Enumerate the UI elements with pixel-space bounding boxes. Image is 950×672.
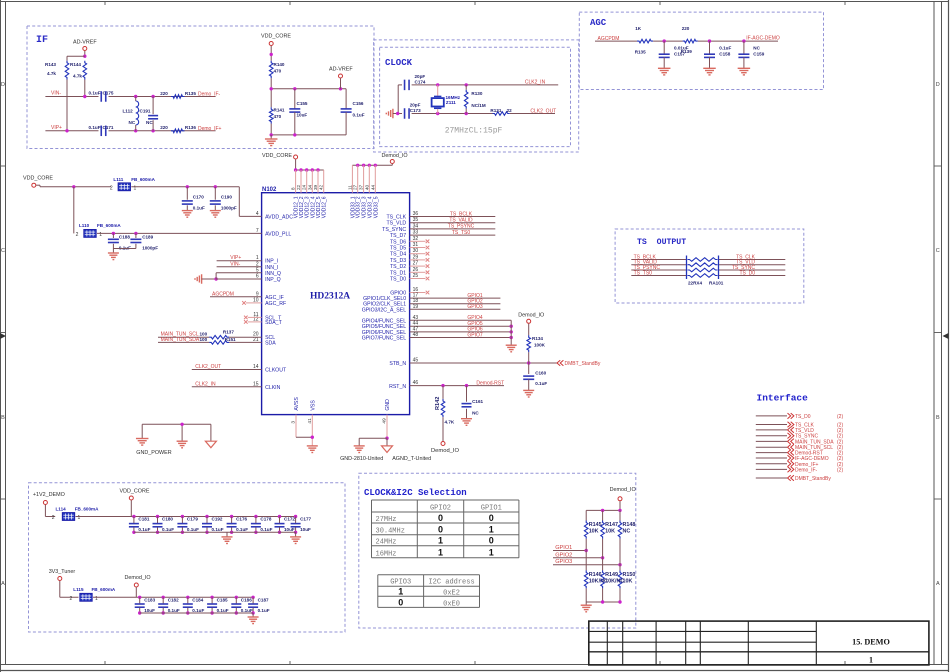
svg-text:2: 2: [70, 596, 73, 602]
svg-text:GPIO2: GPIO2: [430, 505, 451, 513]
svg-text:TS_VLD: TS_VLD: [386, 221, 406, 227]
svg-text:CLKOUT: CLKOUT: [265, 368, 287, 374]
svg-text:R141: R141: [274, 108, 285, 113]
svg-text:34: 34: [307, 184, 312, 190]
svg-text:Demod_IO: Demod_IO: [518, 312, 544, 318]
svg-text:TS_D6: TS_D6: [390, 239, 406, 245]
svg-text:24MHz: 24MHz: [376, 539, 397, 547]
svg-text:GPIO3: GPIO3: [467, 304, 483, 310]
svg-text:0xE0: 0xE0: [443, 601, 460, 609]
svg-text:AGC: AGC: [590, 18, 607, 28]
svg-text:100: 100: [200, 332, 208, 337]
svg-text:44: 44: [370, 184, 375, 190]
svg-text:0.1uF: 0.1uF: [168, 608, 180, 613]
svg-text:R135: R135: [185, 91, 196, 96]
svg-text:Interface: Interface: [757, 393, 809, 404]
svg-text:NC: NC: [623, 529, 631, 535]
svg-text:R140: R140: [274, 62, 285, 67]
svg-text:39: 39: [313, 184, 318, 190]
svg-text:37: 37: [359, 184, 364, 190]
svg-text:R147: R147: [605, 522, 618, 528]
svg-text:D: D: [936, 82, 940, 88]
svg-text:Z111: Z111: [446, 100, 456, 105]
svg-text:A: A: [1, 581, 5, 587]
svg-text:2: 2: [76, 232, 79, 238]
svg-text:R134: R134: [532, 336, 543, 341]
svg-text:1: 1: [398, 587, 403, 597]
svg-text:DMBT_StandBy: DMBT_StandBy: [565, 361, 601, 367]
svg-text:GPIO7: GPIO7: [467, 332, 483, 338]
svg-text:TS_D2: TS_D2: [390, 264, 406, 270]
svg-text:0: 0: [438, 513, 443, 523]
svg-text:TS_D7: TS_D7: [390, 233, 406, 239]
svg-text:VSS: VSS: [310, 400, 316, 411]
svg-text:CLOCK&I2C Selection: CLOCK&I2C Selection: [364, 488, 467, 498]
svg-text:GPIO7/FUNC_SEL: GPIO7/FUNC_SEL: [362, 336, 407, 342]
svg-text:TS_SYNC: TS_SYNC: [382, 227, 406, 233]
svg-text:40: 40: [364, 184, 369, 190]
svg-text:N102: N102: [262, 187, 277, 193]
svg-text:0.1uF: 0.1uF: [241, 608, 253, 613]
svg-text:IF: IF: [36, 35, 48, 46]
svg-text:470: 470: [274, 69, 282, 74]
svg-text:FB_600mA: FB_600mA: [92, 587, 116, 592]
svg-text:C176: C176: [236, 517, 247, 522]
svg-text:AGND_T-United: AGND_T-United: [392, 456, 431, 462]
svg-text:R136: R136: [185, 125, 196, 130]
svg-text:0xE2: 0xE2: [443, 590, 460, 598]
svg-text:0.1uF: 0.1uF: [162, 527, 174, 532]
svg-text:0.1uF: 0.1uF: [89, 125, 101, 130]
svg-text:0.1uF: 0.1uF: [187, 527, 199, 532]
svg-text:R135: R135: [635, 50, 646, 55]
svg-text:C171: C171: [103, 125, 114, 130]
svg-text:TS_D4: TS_D4: [390, 252, 406, 258]
svg-text:L110: L110: [79, 223, 90, 228]
svg-text:TS_VALID: TS_VALID: [449, 218, 473, 224]
svg-text:SDA: SDA: [265, 340, 276, 346]
svg-text:0.1uF: 0.1uF: [236, 527, 248, 532]
svg-text:GND_POWER: GND_POWER: [136, 450, 171, 456]
svg-text:TS_CLK: TS_CLK: [386, 215, 406, 221]
svg-text:2: 2: [52, 515, 55, 521]
svg-text:C174: C174: [415, 80, 426, 85]
svg-text:D: D: [1, 82, 5, 88]
svg-text:470: 470: [274, 114, 282, 119]
svg-text:AD-VREF: AD-VREF: [329, 67, 353, 73]
svg-text:VDD_CORE: VDD_CORE: [120, 488, 150, 494]
svg-text:DMBT_StandBy: DMBT_StandBy: [795, 476, 831, 482]
svg-text:1: 1: [438, 536, 443, 546]
svg-text:Demod_IO: Demod_IO: [125, 575, 151, 581]
svg-text:C186: C186: [241, 597, 252, 602]
svg-text:VDD33_5: VDD33_5: [373, 196, 379, 218]
svg-text:CLK2_OUT: CLK2_OUT: [530, 109, 556, 115]
svg-text:C170: C170: [193, 194, 204, 199]
svg-text:1000pF: 1000pF: [221, 205, 237, 210]
svg-text:STB_N: STB_N: [389, 361, 406, 367]
svg-text:C173: C173: [410, 108, 421, 113]
svg-text:R131: R131: [490, 108, 501, 113]
svg-text:220: 220: [682, 26, 690, 31]
svg-text:C160: C160: [535, 370, 546, 375]
svg-text:24: 24: [302, 184, 307, 190]
svg-text:I2C address: I2C address: [428, 579, 474, 587]
svg-text:0: 0: [438, 525, 443, 535]
svg-text:GND: GND: [385, 399, 391, 411]
svg-text:C184: C184: [192, 597, 203, 602]
svg-text:C189: C189: [142, 234, 153, 239]
svg-text:Demo_IF-: Demo_IF-: [198, 92, 221, 98]
svg-text:10K: 10K: [623, 579, 633, 585]
svg-text:(2): (2): [837, 414, 843, 420]
svg-text:C188: C188: [119, 234, 130, 239]
svg-text:TS_D1: TS_D1: [390, 270, 406, 276]
svg-text:1: 1: [869, 656, 873, 665]
svg-text:C: C: [1, 248, 5, 254]
svg-text:10uF: 10uF: [300, 527, 311, 532]
svg-text:20pF: 20pF: [415, 74, 426, 79]
svg-text:0.1uF: 0.1uF: [192, 608, 204, 613]
svg-text:R146: R146: [589, 572, 602, 578]
svg-text:R145: R145: [589, 522, 602, 528]
svg-text:Demo_IF-: Demo_IF-: [795, 467, 818, 473]
svg-text:R143: R143: [45, 62, 56, 67]
svg-text:0.1uF: 0.1uF: [719, 46, 731, 51]
svg-text:C185: C185: [217, 597, 228, 602]
svg-text:C178: C178: [260, 517, 271, 522]
svg-text:VDD_CORE: VDD_CORE: [262, 153, 292, 159]
svg-text:TS_TS0: TS_TS0: [634, 270, 653, 276]
svg-text:R149: R149: [605, 572, 618, 578]
svg-text:1000pF: 1000pF: [142, 246, 158, 251]
svg-text:10K: 10K: [605, 529, 615, 535]
svg-text:GPIO3: GPIO3: [390, 579, 411, 587]
svg-text:R151: R151: [225, 337, 236, 342]
svg-text:FB_600mA: FB_600mA: [97, 223, 121, 228]
svg-text:15. DEMO: 15. DEMO: [852, 638, 890, 647]
svg-text:B: B: [936, 415, 940, 421]
svg-text:42: 42: [319, 184, 324, 190]
svg-text:27: 27: [353, 184, 358, 190]
svg-text:FB_600mA: FB_600mA: [75, 506, 99, 511]
svg-text:Demo_IF+: Demo_IF+: [198, 126, 222, 132]
svg-text:10K: 10K: [589, 529, 599, 535]
svg-text:AVSS: AVSS: [294, 397, 300, 411]
svg-text:GPIO1: GPIO1: [481, 505, 502, 513]
svg-text:C156: C156: [353, 101, 364, 106]
svg-text:C175: C175: [103, 91, 114, 96]
svg-text:C158: C158: [719, 51, 730, 56]
svg-text:GND-2810-United: GND-2810-United: [340, 456, 383, 462]
svg-text:16MHz: 16MHz: [376, 551, 397, 559]
svg-text:C181: C181: [138, 517, 149, 522]
svg-text:AGC_RF: AGC_RF: [265, 301, 286, 307]
svg-text:NC: NC: [472, 411, 479, 416]
svg-text:2: 2: [110, 186, 113, 192]
svg-text:AD-VREF: AD-VREF: [73, 40, 97, 46]
svg-text:SDA_T: SDA_T: [265, 320, 283, 326]
svg-text:RST_N: RST_N: [389, 384, 406, 390]
svg-text:TS_D5: TS_D5: [390, 246, 406, 252]
svg-text:C179: C179: [187, 517, 198, 522]
svg-text:3V3_Tuner: 3V3_Tuner: [49, 569, 76, 575]
svg-text:C157: C157: [674, 51, 685, 56]
svg-text:VDD12_6: VDD12_6: [322, 196, 328, 218]
svg-text:HD2312A: HD2312A: [310, 292, 350, 302]
svg-text:Demod-RST: Demod-RST: [476, 380, 504, 386]
svg-text:TS OUTPUT: TS OUTPUT: [637, 238, 686, 247]
svg-text:L111: L111: [113, 177, 123, 182]
svg-text:C187: C187: [258, 597, 269, 602]
svg-text:27MHzCL:15pF: 27MHzCL:15pF: [445, 127, 503, 136]
svg-text:CLK2_IN: CLK2_IN: [525, 80, 546, 86]
svg-text:AVDD_PLL: AVDD_PLL: [265, 231, 291, 237]
svg-text:4.7k: 4.7k: [73, 74, 82, 79]
svg-text:0: 0: [489, 513, 494, 523]
svg-text:B: B: [1, 415, 5, 421]
svg-text:0.1uF: 0.1uF: [212, 527, 224, 532]
svg-text:+1V2_DEMO: +1V2_DEMO: [33, 492, 65, 498]
svg-text:TS_BCLK: TS_BCLK: [450, 211, 473, 217]
svg-text:AVDD_ADC: AVDD_ADC: [265, 214, 293, 220]
svg-text:C192: C192: [212, 517, 223, 522]
svg-text:0.1uF: 0.1uF: [353, 113, 365, 118]
svg-text:INN_Q: INN_Q: [265, 271, 281, 277]
svg-text:C191: C191: [140, 109, 151, 114]
svg-text:220: 220: [160, 125, 168, 130]
svg-text:NC/1M: NC/1M: [471, 103, 485, 108]
svg-text:C155: C155: [297, 101, 308, 106]
svg-text:L115: L115: [73, 587, 84, 592]
svg-text:22: 22: [296, 184, 301, 190]
svg-text:GPIO3/I2C_A_SEL: GPIO3/I2C_A_SEL: [362, 307, 407, 313]
svg-text:FB_600mA: FB_600mA: [131, 177, 155, 182]
svg-text:INP_I: INP_I: [265, 259, 278, 265]
svg-text:CLKIN: CLKIN: [265, 385, 281, 391]
svg-text:RA101: RA101: [709, 281, 724, 286]
svg-text:R148: R148: [623, 522, 636, 528]
svg-text:IF-AGC-DEMO: IF-AGC-DEMO: [746, 35, 780, 41]
svg-text:10uF: 10uF: [297, 113, 308, 118]
svg-text:1K: 1K: [635, 26, 642, 31]
svg-text:R137: R137: [223, 330, 234, 335]
svg-text:CLOCK: CLOCK: [385, 58, 413, 68]
svg-text:R144: R144: [70, 62, 81, 67]
svg-text:8: 8: [291, 187, 296, 190]
svg-text:VDD_CORE: VDD_CORE: [261, 34, 291, 40]
svg-text:100K: 100K: [534, 343, 546, 348]
svg-text:4.7K: 4.7K: [445, 420, 455, 425]
svg-text:TS_PSYNC: TS_PSYNC: [448, 224, 475, 230]
svg-text:R150: R150: [623, 572, 636, 578]
svg-text:NC: NC: [129, 120, 136, 125]
svg-text:C190: C190: [221, 194, 232, 199]
svg-text:C180: C180: [162, 517, 173, 522]
svg-text:INP_Q: INP_Q: [265, 277, 281, 283]
svg-text:TS_D0: TS_D0: [739, 270, 755, 276]
svg-text:0.1uF: 0.1uF: [260, 527, 272, 532]
svg-text:Demod_IO: Demod_IO: [610, 487, 636, 493]
svg-text:C172: C172: [284, 517, 295, 522]
svg-text:L114: L114: [56, 506, 67, 511]
svg-text:220: 220: [160, 91, 168, 96]
svg-text:TS_TS0: TS_TS0: [452, 230, 471, 236]
svg-text:0.1uF: 0.1uF: [193, 205, 205, 210]
svg-text:22RX4: 22RX4: [688, 281, 702, 286]
svg-text:Demod_IO: Demod_IO: [431, 448, 460, 454]
svg-text:TS_D3: TS_D3: [390, 258, 406, 264]
svg-text:TS_D0: TS_D0: [795, 414, 811, 420]
svg-text:C182: C182: [168, 597, 179, 602]
svg-text:0.1uF: 0.1uF: [89, 91, 101, 96]
svg-text:C183: C183: [144, 597, 155, 602]
svg-text:R130: R130: [471, 91, 482, 96]
svg-text:0.1uF: 0.1uF: [138, 527, 150, 532]
svg-text:0.1uF: 0.1uF: [217, 608, 229, 613]
svg-text:(2): (2): [837, 467, 843, 473]
svg-text:1: 1: [489, 525, 494, 535]
svg-text:VDD_CORE: VDD_CORE: [23, 176, 53, 182]
svg-text:100: 100: [200, 337, 208, 342]
svg-text:10uF: 10uF: [284, 527, 295, 532]
svg-text:A: A: [936, 581, 940, 587]
svg-text:0: 0: [398, 598, 403, 608]
svg-text:Demod_IO: Demod_IO: [382, 153, 408, 159]
svg-text:0.1uF: 0.1uF: [535, 381, 547, 386]
svg-text:VIN-: VIN-: [51, 91, 61, 97]
svg-text:C177: C177: [300, 517, 311, 522]
svg-text:VIP+: VIP+: [51, 125, 62, 131]
svg-text:0.1uF: 0.1uF: [258, 608, 270, 613]
svg-text:C: C: [936, 248, 940, 254]
svg-text:1: 1: [438, 548, 443, 558]
svg-text:0.01uF: 0.01uF: [674, 46, 689, 51]
svg-text:C161: C161: [472, 399, 483, 404]
svg-text:R142: R142: [435, 397, 441, 410]
svg-text:1: 1: [489, 548, 494, 558]
svg-text:NC: NC: [146, 120, 153, 125]
svg-text:AGC_IF: AGC_IF: [265, 295, 284, 301]
svg-text:27MHz: 27MHz: [376, 516, 397, 524]
svg-text:L112: L112: [123, 109, 134, 114]
svg-text:C159: C159: [753, 51, 764, 56]
svg-text:NC: NC: [753, 46, 760, 51]
svg-text:4.7k: 4.7k: [47, 71, 56, 76]
svg-text:20pF: 20pF: [410, 102, 421, 107]
svg-text:10K/NC: 10K/NC: [605, 579, 624, 585]
svg-text:11: 11: [347, 185, 352, 190]
svg-text:0: 0: [489, 536, 494, 546]
svg-text:22: 22: [507, 108, 513, 113]
svg-text:TS_D0: TS_D0: [390, 277, 406, 283]
svg-text:30.4MHz: 30.4MHz: [376, 528, 405, 536]
svg-text:10uF: 10uF: [144, 608, 155, 613]
